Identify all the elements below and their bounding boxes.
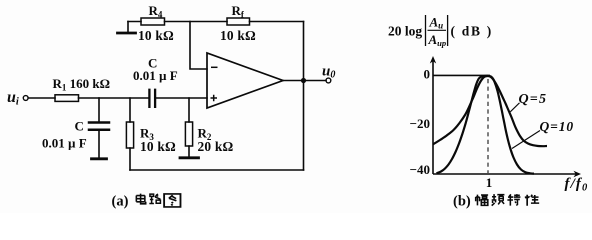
resistor R1 <box>55 95 79 102</box>
svg-text:20 kΩ: 20 kΩ <box>198 139 234 154</box>
ground (R4) <box>118 32 136 35</box>
y-axis <box>432 59 434 174</box>
resistor R3 <box>126 122 133 148</box>
capacitor C series <box>149 90 155 107</box>
curve Q=5 <box>433 76 547 146</box>
svg-text:0.01 µ F: 0.01 µ F <box>133 68 178 83</box>
op-amp minus sign <box>211 66 218 68</box>
caption glyph te <box>507 194 520 206</box>
caption glyph lu <box>149 194 160 204</box>
wire top rail <box>128 21 304 23</box>
svg-text:10 kΩ: 10 kΩ <box>220 28 256 43</box>
svg-text:−20: −20 <box>410 116 430 131</box>
svg-text:1: 1 <box>486 175 493 190</box>
svg-text:10 kΩ: 10 kΩ <box>140 139 176 154</box>
node output junction <box>301 78 306 83</box>
svg-text:0.01 µ F: 0.01 µ F <box>42 136 87 151</box>
caption glyph xing <box>525 195 539 206</box>
ground (R2) <box>180 156 199 159</box>
wire right vertical (feedback/output bus) <box>303 22 305 171</box>
wire ground drop at R4 <box>127 22 129 33</box>
wire shunt C branch <box>98 98 100 121</box>
0 dB line <box>433 74 490 76</box>
svg-text:20 log: 20 log <box>388 24 422 39</box>
svg-text:( dB ): ( dB ) <box>451 24 493 39</box>
capacitor C shunt <box>89 123 109 130</box>
svg-text:C: C <box>75 119 84 134</box>
svg-text:−40: −40 <box>410 162 430 177</box>
caption glyph tu <box>164 194 180 207</box>
ground (shunt C) <box>92 157 107 160</box>
caption glyph dian <box>136 194 145 204</box>
svg-text:(b): (b) <box>453 194 471 210</box>
wire shunt C to ground <box>98 131 100 158</box>
leader Q=5 <box>510 103 519 112</box>
svg-text:(a): (a) <box>112 194 129 210</box>
caption glyph fu <box>476 195 488 206</box>
caption glyph pin <box>492 194 505 206</box>
op-amp plus sign <box>211 95 218 102</box>
resistor R4 <box>141 18 165 25</box>
wire R3 branch <box>129 98 131 170</box>
terminal ui <box>23 96 28 101</box>
leader Q=10 <box>512 131 540 149</box>
svg-text:10 kΩ: 10 kΩ <box>138 28 174 43</box>
dashed line at f/f0=1 <box>487 79 489 173</box>
wire R2 branch <box>188 98 190 157</box>
wire bottom rail <box>130 169 304 171</box>
svg-text:Q=5: Q=5 <box>519 92 548 107</box>
curve Q=10 <box>437 76 535 174</box>
terminal u0 <box>326 78 331 83</box>
svg-text:R1 160 kΩ: R1 160 kΩ <box>53 76 111 93</box>
wire input main rail <box>28 97 207 99</box>
x-axis <box>433 173 577 175</box>
wire output <box>283 80 326 82</box>
wire to inverting input <box>190 22 207 70</box>
resistor Rf <box>227 18 250 25</box>
op-amp U triangle <box>207 53 283 108</box>
svg-text:Q=10: Q=10 <box>540 119 575 134</box>
resistor R2 <box>185 122 192 146</box>
svg-text:0: 0 <box>424 67 431 82</box>
